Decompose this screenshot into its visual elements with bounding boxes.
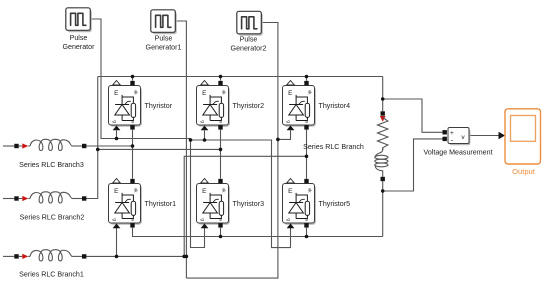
pulse generator PG1: [66, 8, 92, 32]
wire: Thyristor1 gate drop: [116, 228, 118, 257]
svg-text:Voltage Measurement: Voltage Measurement: [423, 149, 492, 157]
wire: gate branch down to Thyristor3 gate: [191, 140, 205, 248]
wire: leg3 vertical: [306, 130, 308, 179]
node: bus junction dots: [131, 75, 135, 79]
svg-text:Thyristor5: Thyristor5: [319, 200, 351, 208]
svg-text:Pulse: Pulse: [240, 36, 258, 44]
wire: leg2 vertical: [220, 130, 222, 179]
wire: RLC Branch3 to leg1: [86, 145, 132, 147]
svg-text:Series RLC Branch3: Series RLC Branch3: [19, 161, 84, 169]
wire: bottom anode rail: [133, 228, 383, 237]
inductor branch: Series RLC Branch3: [3, 139, 86, 150]
wire: rail stubs from Thyristor3 and Thyristor5: [221, 228, 307, 237]
wire: Voltage Measurement output to scope: [469, 135, 499, 137]
svg-text:Series RLC Branch2: Series RLC Branch2: [20, 214, 85, 222]
pulse generator PG3: [237, 11, 263, 35]
thyristor U1 (Thyristor): [109, 81, 142, 131]
svg-text:Series RLC Branch1: Series RLC Branch1: [19, 270, 84, 278]
wire: Pulse Generator2 output long drop: [186, 23, 278, 279]
node: gate line dots: [115, 137, 119, 141]
svg-text:Thyristor3: Thyristor3: [233, 200, 265, 208]
inductor branch: Series RLC Branch1: [3, 250, 86, 261]
svg-text:Output: Output: [512, 167, 536, 176]
wire: leg1 vertical: [132, 130, 134, 179]
wire: Pulse Generator1 output long drop: [175, 21, 186, 278]
wire: bus stubs to thyristor top ports: [133, 77, 307, 81]
wire: Thyristor2 gate stub: [204, 131, 206, 141]
thyristor U2 (Thyristor2): [197, 81, 230, 131]
wire: Thyristor gate stub: [116, 131, 118, 139]
node: rail dots: [219, 235, 223, 239]
wire: top cathode bus: [98, 76, 383, 78]
wire: bus left end drop to RLC Branch2: [86, 77, 97, 199]
svg-text:Pulse: Pulse: [155, 35, 173, 43]
inductor branch: Series RLC Branch2: [3, 192, 86, 203]
svg-text:Generator1: Generator1: [146, 44, 182, 52]
wire: to Voltage Measurement minus input: [383, 139, 443, 191]
wire: phase line RLC Branch2 to leg2: [98, 148, 221, 150]
wire: Pulse Generator output to gate line of Thyristor row: [90, 19, 290, 248]
svg-text:Thyristor2: Thyristor2: [233, 102, 265, 110]
node: RLC Branch1 line dots: [115, 255, 119, 259]
svg-text:Thyristor1: Thyristor1: [145, 200, 177, 208]
svg-text:Thyristor4: Thyristor4: [319, 102, 351, 110]
wire: load branch vertical from bus: [382, 77, 384, 237]
pulse generator PG2: [151, 10, 177, 34]
wire: to Voltage Measurement plus input: [383, 99, 443, 132]
thyristor U3 (Thyristor4): [283, 81, 316, 131]
wire: riser from RLC Branch1 line to leg3: [184, 156, 306, 256]
scope: Output: [505, 109, 541, 164]
resistor-inductor load: Series RLC Branch (vertical): [375, 111, 388, 181]
node: load branch dots: [381, 97, 385, 101]
svg-text:Pulse: Pulse: [70, 34, 88, 42]
svg-text:Generator2: Generator2: [231, 45, 267, 53]
svg-text:Series RLC Branch: Series RLC Branch: [303, 143, 364, 151]
wire: RLC Branch1 line to PG drop junction: [86, 255, 186, 257]
svg-text:Generator: Generator: [63, 43, 96, 51]
node: phase connection dots: [131, 144, 135, 148]
thyristor U6 (Thyristor5): [283, 179, 316, 229]
thyristor U4 (Thyristor1): [109, 179, 142, 229]
svg-text:Thyristor: Thyristor: [145, 102, 173, 110]
wire: Thyristor4 gate branch: [278, 131, 291, 140]
arrowhead into Output scope: [499, 132, 506, 139]
thyristor U5 (Thyristor3): [197, 179, 230, 229]
voltage measurement VM: [443, 128, 471, 146]
